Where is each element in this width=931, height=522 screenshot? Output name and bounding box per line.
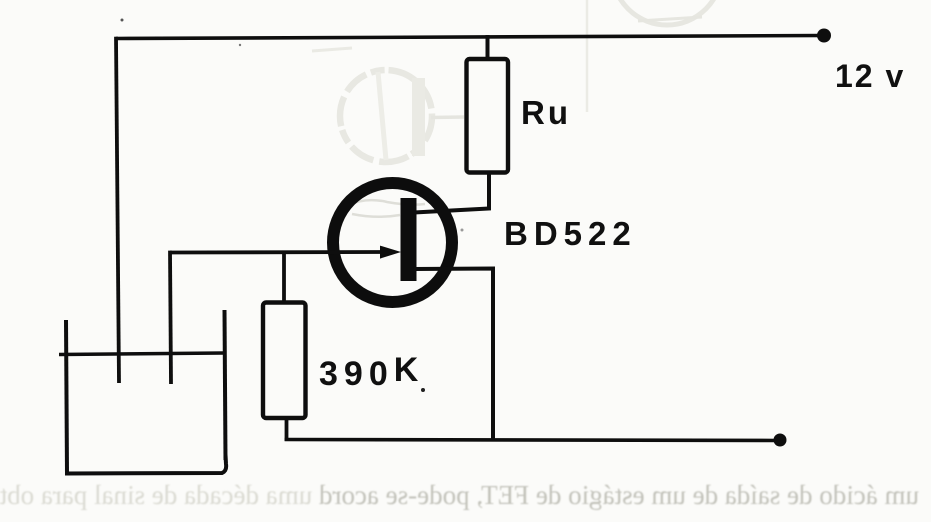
sensor container: right wall — [225, 310, 226, 460]
wire: 390K bottom stub — [285, 418, 289, 441]
sensor container: left wall — [66, 320, 67, 474]
specks — [121, 19, 124, 22]
wire: Ru bottom to collector — [414, 173, 489, 213]
svg-text:Ru: Ru — [521, 94, 571, 131]
svg-text:BD522: BD522 — [504, 215, 637, 252]
wire: bottom rail — [285, 440, 778, 441]
speck below K — [421, 388, 425, 392]
wire: electrode 2 vertical — [170, 251, 171, 384]
node: bottom terminal dot — [774, 434, 787, 447]
bleed-through arc top right — [587, 0, 722, 112]
wire: left vertical from rail into sensor (electrode 1) — [116, 37, 119, 383]
bleed marks inside transistor circle — [347, 200, 425, 217]
sensor container: bottom — [65, 455, 226, 474]
node: 12V terminal dot — [817, 29, 831, 43]
resistor 390K — [263, 303, 306, 419]
svg-text:12 v: 12 v — [835, 58, 905, 94]
transistor Q1 BD522 — [333, 183, 452, 302]
wire: base lead with arrow — [170, 250, 382, 254]
bleed-through transistor circle (show-through from reverse page) — [312, 48, 464, 162]
bleed-through mirrored text at bottom — [0, 480, 931, 511]
wire: emitter lead — [414, 269, 493, 441]
svg-text:390K: 390K — [319, 351, 424, 393]
wire: Ru top stub — [486, 35, 490, 61]
sensor water level line — [59, 353, 224, 355]
transistor base bar — [401, 198, 417, 281]
wire: 390K top stub — [282, 251, 286, 304]
wire: top supply rail — [116, 36, 822, 39]
base arrowhead — [380, 246, 401, 259]
resistor Ru — [467, 59, 509, 173]
